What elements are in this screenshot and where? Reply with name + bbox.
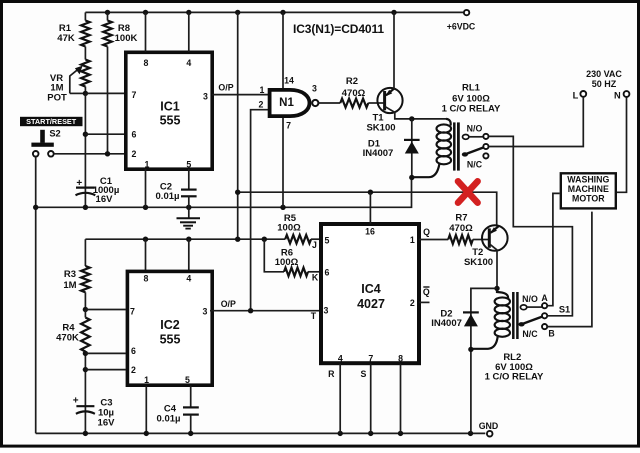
wire IC2 pin4 stub: [188, 239, 190, 271]
svg-text:555: 555: [160, 332, 181, 346]
op-amp U N1 NAND gate: [270, 90, 310, 116]
svg-text:+: +: [73, 396, 79, 407]
wire bottom ground bus: [36, 432, 486, 434]
node IC2 pin8: [143, 237, 148, 242]
node bus IC4 pin8: [398, 431, 403, 436]
transistor T2 SK100: [482, 225, 508, 251]
svg-text:470Ω: 470Ω: [342, 88, 366, 99]
wire IC4 pin2 Qbar stub: [419, 301, 430, 303]
svg-text:B: B: [548, 329, 554, 339]
wire IC1 pin7: [85, 92, 124, 94]
svg-text:4: 4: [186, 58, 191, 68]
node R3/R4 junction: [83, 307, 88, 312]
svg-text:J: J: [312, 240, 317, 250]
svg-text:2: 2: [259, 100, 264, 110]
svg-text:O/P: O/P: [218, 83, 233, 93]
svg-text:16V: 16V: [98, 418, 116, 429]
capacitor C4: [183, 406, 199, 408]
node VR/pin7 junction: [83, 91, 88, 96]
svg-text:N1: N1: [279, 97, 294, 109]
node riser bottom: [235, 237, 240, 242]
RL1 N/C contact: [483, 153, 488, 158]
wire R2 to T1 base: [368, 102, 383, 104]
capacitor C1: [76, 187, 95, 189]
resistor R6: [264, 239, 284, 272]
svg-text:K: K: [312, 272, 319, 282]
svg-text:8: 8: [144, 274, 149, 284]
op-amp U IC1 555 box: [126, 52, 212, 169]
node bus D2: [468, 431, 473, 436]
wire S1 pole to RL1 N/O crossover: [489, 136, 573, 315]
svg-text:N/C: N/C: [467, 159, 483, 169]
wire S2 left leg down: [35, 157, 37, 434]
switch S2 pushbutton: [40, 130, 45, 143]
node gnd C2: [186, 205, 191, 210]
svg-text:1: 1: [145, 160, 150, 170]
svg-text:IC4: IC4: [361, 282, 381, 296]
node junction N1 pin14: [280, 10, 285, 15]
svg-text:S1: S1: [559, 304, 570, 314]
svg-text:8: 8: [144, 58, 149, 68]
resistor R8: [103, 21, 112, 47]
svg-text:2: 2: [132, 149, 137, 159]
wire L to RL1 pole: [489, 97, 584, 147]
svg-text:WASHING: WASHING: [567, 175, 609, 185]
svg-text:GND: GND: [479, 421, 499, 431]
node N1 input2 junction: [248, 308, 253, 313]
svg-text:0.01µ: 0.01µ: [157, 414, 181, 425]
resistor R7: [448, 235, 473, 244]
op-amp U IC4 4027 box: [321, 224, 419, 363]
svg-text:O/P: O/P: [221, 299, 236, 309]
svg-text:1 C/O RELAY: 1 C/O RELAY: [485, 372, 544, 383]
svg-text:16V: 16V: [96, 194, 114, 205]
svg-text:IN4007: IN4007: [363, 148, 394, 159]
svg-text:+6VDC: +6VDC: [447, 22, 476, 32]
svg-text:470Ω: 470Ω: [449, 223, 473, 234]
node gnd N1 pin7: [280, 205, 285, 210]
node gnd IC1 pin1: [143, 205, 148, 210]
wire motor right to N: [617, 97, 627, 192]
svg-text:IC1: IC1: [160, 99, 180, 113]
svg-text:230 VAC: 230 VAC: [586, 69, 622, 79]
node D2/RL2 bottom junction: [468, 347, 473, 352]
svg-text:100Ω: 100Ω: [275, 257, 299, 268]
wire IC4 pin1 Q to R7: [419, 239, 448, 241]
wire IC4 pin8 stub: [400, 364, 402, 434]
op-amp U IC2 555 box: [127, 271, 212, 385]
diode D2 IN4007: [471, 288, 497, 433]
svg-text:MACHINE: MACHINE: [568, 184, 609, 194]
wire IC4 pin7 stub: [370, 364, 372, 434]
wire R1 to VR: [84, 47, 86, 60]
svg-text:5: 5: [185, 375, 190, 385]
node D1 top junction: [409, 116, 414, 121]
svg-text:7: 7: [286, 121, 291, 131]
resistor R2: [340, 99, 368, 108]
svg-text:4027: 4027: [357, 297, 385, 311]
svg-text:R2: R2: [346, 76, 358, 87]
wire riser x238: [237, 12, 239, 239]
wire S2 to IC1 pin2: [54, 153, 124, 155]
svg-text:S: S: [360, 369, 366, 379]
wire N1 input2 riser from IC2 O/P: [251, 110, 268, 311]
RL1 armature: [462, 152, 468, 156]
resistor R4: [84, 310, 86, 318]
svg-text:3: 3: [324, 306, 329, 316]
svg-text:R7: R7: [455, 213, 467, 224]
node T2 emitter/RL2 junction: [494, 286, 499, 291]
svg-text:4: 4: [338, 354, 343, 364]
svg-text:1 C/O RELAY: 1 C/O RELAY: [442, 104, 501, 115]
node junction R8 top: [105, 10, 110, 15]
svg-text:7: 7: [132, 90, 137, 100]
svg-text:T: T: [311, 311, 317, 321]
svg-text:7: 7: [130, 307, 135, 317]
node bus C3: [83, 431, 88, 436]
svg-text:START/RESET: START/RESET: [26, 117, 77, 126]
node D1 bottom junction: [409, 175, 414, 180]
wire IC1 pin6: [85, 133, 124, 135]
svg-text:SK100: SK100: [464, 257, 493, 268]
T2 collector down: [489, 244, 497, 289]
node IC4 pin16: [368, 190, 373, 195]
wire IC4 pin4 stub: [339, 364, 341, 434]
washing machine motor box: [561, 173, 616, 208]
T1 collector to relay: [385, 106, 446, 119]
svg-text:8: 8: [398, 354, 403, 364]
svg-text:RL1: RL1: [462, 83, 481, 94]
svg-text:IN4007: IN4007: [431, 318, 462, 329]
resistor R3: [84, 239, 86, 266]
svg-text:IC3(N1)=CD4011: IC3(N1)=CD4011: [293, 22, 384, 36]
wire N1 out to R2: [318, 102, 340, 104]
svg-text:14: 14: [284, 76, 294, 86]
svg-text:POT: POT: [47, 93, 67, 104]
wire IC2 pin3 output to IC4 T: [210, 310, 321, 312]
svg-text:MOTOR: MOTOR: [572, 194, 605, 204]
wire IC1 pin5 stub: [188, 169, 190, 189]
relay RL2 coil: [497, 288, 508, 298]
svg-text:Q: Q: [423, 287, 430, 297]
RL2 armature: [518, 322, 524, 326]
resistor R1: [81, 21, 90, 47]
svg-text:N: N: [614, 91, 621, 101]
wire IC2 pin1 stub: [145, 386, 147, 434]
svg-text:6: 6: [325, 268, 330, 278]
wire R8 top stub: [107, 12, 109, 20]
node junction T1 emitter: [391, 10, 396, 15]
svg-text:6: 6: [131, 346, 136, 356]
wire IC2 pin8 stub: [145, 239, 147, 271]
wire top +6V bus: [85, 11, 464, 13]
resistor R5: [285, 235, 311, 243]
node IC2 pin4: [186, 237, 191, 242]
svg-text:6: 6: [132, 130, 137, 140]
RL2 pole contact S1: [542, 313, 547, 318]
wire column down to C1: [84, 93, 86, 207]
svg-text:470K: 470K: [56, 333, 79, 344]
svg-text:N/C: N/C: [522, 329, 538, 339]
wire IC2 pin5 stub: [190, 386, 192, 408]
svg-text:IC2: IC2: [160, 318, 180, 332]
svg-text:555: 555: [160, 114, 181, 128]
node bus IC2 pin1: [144, 431, 149, 436]
svg-text:3: 3: [203, 92, 208, 102]
svg-text:N/O: N/O: [522, 294, 538, 304]
node pin2 junction: [83, 367, 88, 372]
svg-text:SK100: SK100: [366, 123, 395, 134]
svg-text:5: 5: [186, 160, 191, 170]
capacitor C3: [76, 405, 94, 407]
svg-text:S2: S2: [49, 129, 60, 139]
terminal +6VDC: [464, 10, 469, 15]
wire IC2 pin7: [85, 309, 125, 311]
svg-text:5: 5: [325, 236, 330, 246]
node R8 bottom junction: [105, 151, 110, 156]
capacitor C2: [181, 189, 197, 191]
VR wiper arrow: [70, 69, 78, 93]
svg-text:R3: R3: [64, 269, 76, 280]
relay RL1 coil: [446, 119, 451, 126]
terminal GND: [487, 431, 493, 437]
wire +6V lower bus: [85, 238, 285, 240]
node R6 tap: [262, 237, 267, 242]
node gnd S2: [33, 205, 38, 210]
svg-text:4: 4: [186, 274, 191, 284]
svg-text:2: 2: [410, 298, 415, 308]
node pin6 junction: [83, 351, 88, 356]
svg-text:N/O: N/O: [467, 124, 483, 134]
svg-text:100Ω: 100Ω: [277, 223, 301, 234]
RL2 N/C contact B: [542, 324, 547, 329]
svg-text:7: 7: [368, 354, 373, 364]
node junction IC1 pin4: [186, 10, 191, 15]
svg-text:16: 16: [365, 226, 375, 236]
X cut mark: [458, 181, 478, 202]
node junction IC1 pin8: [143, 10, 148, 15]
N1 output bubble: [312, 100, 318, 106]
wire IC1 pin4 stub: [188, 12, 190, 52]
svg-text:A: A: [541, 293, 548, 303]
svg-text:3: 3: [312, 84, 317, 94]
relay RL2 core: [512, 292, 515, 339]
svg-text:47K: 47K: [57, 33, 75, 44]
T2 emitter (to +6V) with PNP arrow: [491, 226, 499, 233]
svg-text:1M: 1M: [63, 280, 76, 291]
svg-text:100K: 100K: [115, 33, 138, 44]
wire R8 to pin2 line: [107, 47, 109, 154]
diode D1 IN4007: [411, 119, 413, 178]
node bus IC4 pin7: [368, 431, 373, 436]
transistor T1 SK100: [377, 88, 402, 113]
node bus C4: [188, 431, 193, 436]
relay RL1 core: [453, 122, 456, 170]
wire N1 pin7 stub: [282, 117, 284, 208]
svg-text:0.01µ: 0.01µ: [156, 191, 180, 202]
wire IC1 pin8 stub: [145, 12, 147, 52]
wire IC1 pin1 stub: [145, 169, 147, 207]
wire IC1 pin3 output to N1: [212, 94, 268, 96]
wire ground bus: [36, 178, 412, 208]
node bus IC4 pin4: [338, 431, 343, 436]
wire B to motor bottom: [547, 212, 592, 327]
node riser/mid-bus: [235, 190, 240, 195]
T1 emitter (to +6V) with PNP arrow: [386, 89, 394, 96]
wire IC2 pin6: [85, 352, 125, 354]
switch S2 terminals: [33, 151, 39, 157]
RL1 pole contact: [483, 144, 488, 149]
svg-text:2: 2: [131, 365, 136, 375]
svg-text:L: L: [573, 91, 579, 101]
svg-text:3: 3: [203, 307, 208, 317]
node junction x238 riser: [235, 10, 240, 15]
label START/RESET: [20, 117, 83, 126]
wire R7 to T2 base: [473, 239, 488, 241]
ground symbol below C2: [188, 207, 190, 218]
svg-text:50 HZ: 50 HZ: [592, 79, 617, 89]
svg-text:Q: Q: [423, 227, 430, 237]
wire IC2 pin2: [85, 369, 125, 371]
node gnd C1: [83, 205, 88, 210]
svg-text:1: 1: [144, 375, 149, 385]
svg-text:1: 1: [260, 85, 265, 95]
wire +6V middle bus to T2: [238, 192, 497, 225]
wire N1 pin14 stub: [282, 12, 284, 88]
svg-text:+: +: [76, 178, 82, 189]
wire A to motor left: [547, 193, 559, 305]
svg-text:1: 1: [410, 235, 415, 245]
wire IC4 pin16 stub: [369, 192, 371, 224]
wire R1 column top stub: [84, 12, 86, 20]
svg-text:R: R: [328, 369, 335, 379]
node pin6 junction: [83, 132, 88, 137]
potentiometer VR: [81, 60, 90, 87]
